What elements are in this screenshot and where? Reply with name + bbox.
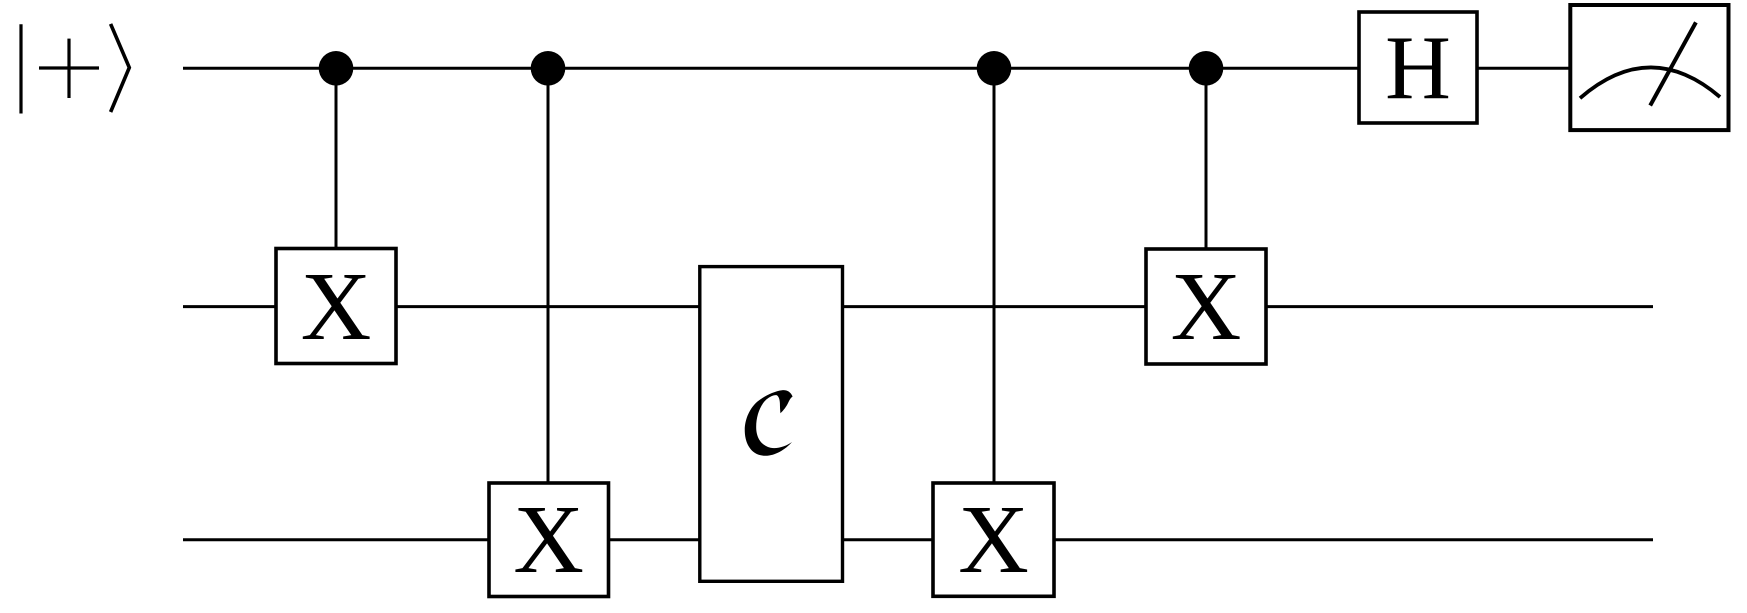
- measurement meter on q0: [1570, 5, 1728, 130]
- control line CX1 (q0 to X1): [335, 68, 338, 306]
- ket |+> input state label: [21, 24, 129, 114]
- control line CX3 (q0 to X3): [993, 68, 996, 539]
- control line CX4 (q0 to X4): [1205, 68, 1208, 306]
- wire q2: [183, 538, 1653, 541]
- svg-text:H: H: [1385, 17, 1451, 118]
- control dot 2: [531, 51, 566, 86]
- svg-text:X: X: [513, 486, 584, 594]
- gate H (Hadamard on q0): [1359, 12, 1477, 123]
- gate X2 (target on q2): [489, 483, 609, 597]
- gate X1 (target on q1): [276, 249, 396, 364]
- control line CX2 (q0 to X2): [547, 68, 550, 539]
- gate C (channel box spanning q1-q2): [700, 267, 843, 582]
- svg-text:X: X: [958, 486, 1029, 594]
- control dot 3: [977, 51, 1012, 86]
- wire q1: [183, 305, 1653, 308]
- svg-text:X: X: [1171, 253, 1242, 361]
- wire q0: [183, 67, 1570, 70]
- control dot 1: [319, 51, 354, 86]
- control dot 4: [1189, 51, 1224, 86]
- gate X4 (target on q1): [1146, 249, 1266, 364]
- gate X3 (target on q2): [933, 483, 1054, 596]
- svg-text:X: X: [301, 253, 372, 361]
